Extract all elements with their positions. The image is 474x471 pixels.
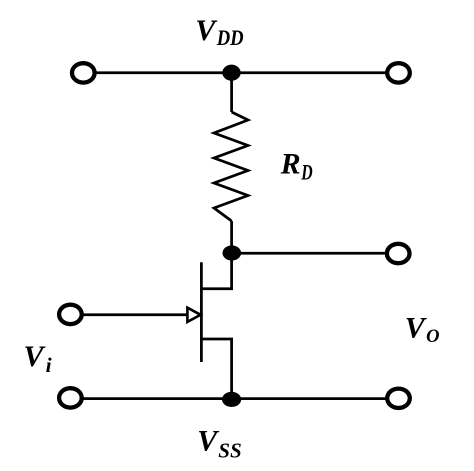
svg-text:DD: DD — [216, 25, 244, 50]
svg-text:V: V — [197, 425, 220, 458]
svg-text:D: D — [301, 160, 313, 185]
svg-text:SS: SS — [218, 438, 241, 462]
svg-text:V: V — [24, 340, 47, 373]
svg-text:V: V — [195, 14, 218, 47]
svg-text:V: V — [405, 312, 428, 345]
svg-text:i: i — [46, 353, 52, 377]
svg-text:O: O — [426, 326, 440, 347]
svg-text:R: R — [280, 147, 301, 180]
